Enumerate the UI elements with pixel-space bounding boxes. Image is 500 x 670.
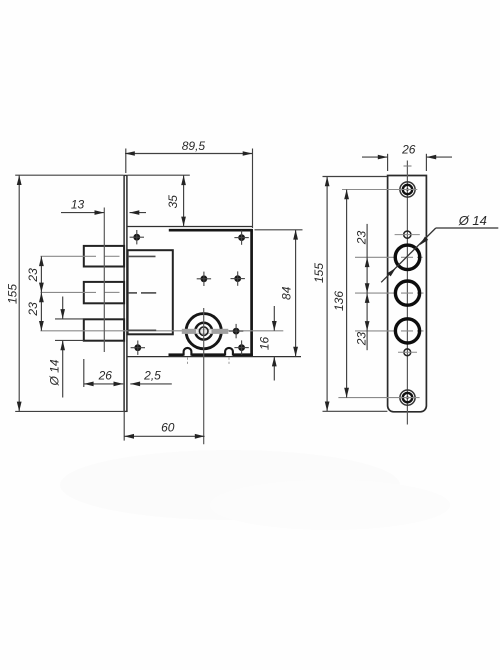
centerline bolt B1 [41, 255, 156, 257]
dim 23 lower right [354, 293, 369, 350]
svg-text:89,5: 89,5 [182, 139, 206, 153]
cylinder vertical centerline [203, 308, 205, 444]
dim 89.5 [125, 139, 253, 228]
svg-text:26: 26 [401, 142, 416, 156]
svg-text:23: 23 [354, 332, 368, 347]
svg-text:136: 136 [332, 291, 346, 311]
bolt vertical axis [103, 208, 105, 353]
dim 23 upper right [354, 224, 369, 293]
svg-text:Ø 14: Ø 14 [458, 213, 487, 228]
strike plate P1 (front view) [388, 176, 427, 412]
screw mark S6 [131, 341, 145, 355]
small hole h1 [395, 231, 420, 238]
plate vertical centerline [404, 161, 412, 425]
svg-text:2,5: 2,5 [143, 369, 161, 383]
svg-text:60: 60 [161, 420, 175, 434]
svg-text:155: 155 [6, 284, 20, 304]
svg-text:16: 16 [258, 337, 272, 351]
dim 16 [258, 306, 277, 381]
centerline bolt B2 [41, 291, 157, 294]
centerline bolt B3 / cylinder axis horizontal [41, 329, 284, 332]
svg-text:23: 23 [26, 302, 40, 317]
dim 60 [124, 411, 204, 440]
dim 155 left [6, 175, 124, 411]
lock body cover plate (bold) [169, 229, 253, 356]
bolt hole circle D3 [355, 319, 424, 343]
faceplate F1 (side view) [123, 175, 127, 411]
mounting post arch 1 [184, 348, 192, 364]
small hole h2 [398, 349, 417, 356]
dim dia 14 left [48, 297, 84, 398]
dim 136 [332, 190, 420, 398]
dim 155 right [312, 177, 387, 412]
dim 26 left [84, 359, 124, 387]
svg-text:26: 26 [98, 368, 113, 382]
screw mark S2 [234, 230, 248, 244]
screw hole H1 top [400, 182, 415, 197]
screw hole H2 bottom [400, 390, 415, 405]
svg-text:35: 35 [166, 195, 180, 209]
dim 2.5 [130, 369, 172, 387]
dim 26 right [362, 142, 452, 171]
leader dia 14 right [381, 213, 498, 282]
faint paper smudge [60, 450, 400, 520]
svg-text:84: 84 [280, 286, 294, 300]
deadbolt B1 [84, 246, 124, 267]
svg-text:13: 13 [71, 197, 85, 211]
lock body outline (thin) [127, 227, 301, 357]
deadbolt B3 [84, 319, 124, 340]
svg-text:23: 23 [354, 231, 368, 246]
screw mark S7 [234, 340, 248, 354]
screw mark S3 [197, 272, 211, 286]
dim 23 upper left [26, 256, 44, 292]
svg-text:23: 23 [26, 268, 40, 283]
bolt housing box [128, 250, 173, 334]
dim 84 [255, 230, 303, 357]
screw mark S5 [229, 324, 243, 338]
deadbolt B2 [84, 282, 124, 303]
bolt hole circle D2 [355, 281, 424, 305]
svg-text:155: 155 [312, 263, 326, 283]
cylinder C1 [182, 314, 229, 349]
svg-text:Ø 14: Ø 14 [48, 359, 62, 386]
mounting post arch 2 [225, 348, 233, 364]
screw mark S4 [231, 271, 245, 285]
screw mark S1 [130, 230, 144, 244]
bolt hole circle D1 [355, 245, 423, 270]
dim 13 [61, 197, 146, 215]
dim 23 lower left [26, 292, 44, 330]
dim 35 [128, 175, 190, 226]
